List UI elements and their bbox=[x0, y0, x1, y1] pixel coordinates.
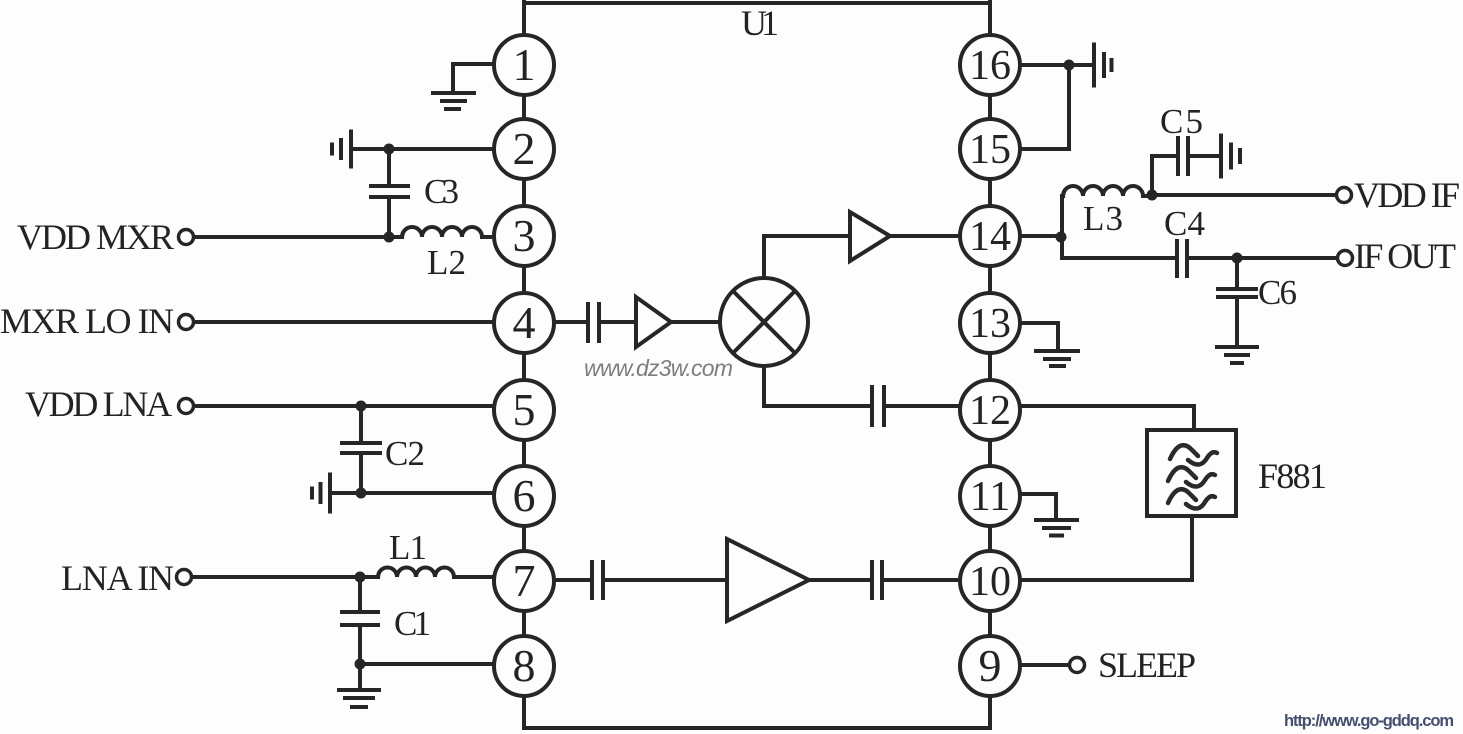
wire: pin 16 to ground bbox=[1020, 63, 1092, 67]
capacitor C1 bbox=[342, 612, 378, 625]
junction node at C1 bottom bbox=[355, 659, 366, 670]
junction node at LNA IN / C1 bbox=[355, 572, 366, 583]
terminal MXR LO IN bbox=[179, 315, 194, 330]
inductor L2 bbox=[402, 227, 496, 237]
junction node at L3 / C5 bbox=[1147, 190, 1158, 201]
wire: VDD LNA terminal to pin 5 bbox=[193, 404, 496, 408]
wire: C5 to ground bbox=[1190, 154, 1219, 158]
junction node at C4 / C6 bbox=[1232, 253, 1243, 264]
wire: mixer bottom down and right bbox=[764, 364, 870, 406]
svg-text:VDD LNA: VDD LNA bbox=[25, 384, 172, 424]
IC U1 pin 14 bbox=[960, 206, 1020, 266]
op-amp buffer A1 (LO path) bbox=[636, 297, 671, 347]
ground at pin 11 bbox=[1036, 520, 1077, 536]
ground at C1 bbox=[339, 690, 379, 707]
svg-text:8: 8 bbox=[513, 640, 536, 691]
capacitor C6 bbox=[1218, 289, 1256, 297]
wire: pin 1 to ground bbox=[453, 64, 496, 91]
wire: pin 13 to ground bbox=[1020, 323, 1058, 349]
svg-text:6: 6 bbox=[513, 470, 536, 521]
mixer M1 circle bbox=[720, 278, 808, 366]
svg-text:9: 9 bbox=[979, 640, 1002, 691]
capacitor C2 bbox=[342, 443, 380, 453]
svg-text:15: 15 bbox=[969, 127, 1011, 173]
svg-text:C5: C5 bbox=[1160, 102, 1203, 141]
wire: bottom rail from pin 8 to pin 9 bbox=[524, 726, 990, 730]
junction node at C2 bottom bbox=[356, 488, 367, 499]
terminal SLEEP bbox=[1070, 658, 1085, 673]
capacitor C4 bbox=[1177, 241, 1187, 276]
filter F881 wave 1 bbox=[1170, 445, 1198, 459]
svg-text:13: 13 bbox=[969, 301, 1011, 347]
coupling capacitor at pin 12 bbox=[872, 387, 884, 425]
svg-text:10: 10 bbox=[969, 559, 1011, 605]
svg-text:16: 16 bbox=[969, 43, 1011, 89]
svg-text:LNA IN: LNA IN bbox=[61, 558, 174, 598]
wire: top rail from pin 1 to pin 16 bbox=[524, 1, 990, 5]
wire: ground to pin 6 bbox=[332, 491, 496, 495]
wire: cap to buffer amp bbox=[601, 320, 634, 324]
svg-text:http://www.go-gddq.com: http://www.go-gddq.com bbox=[1284, 712, 1454, 730]
IC U1 pin 10 bbox=[960, 551, 1020, 611]
wire: right pin column vertical rail bbox=[988, 1, 992, 728]
wire: MXR LO IN terminal to pin 4 bbox=[193, 320, 496, 324]
wire: C1 node to pin 8 bbox=[360, 662, 496, 666]
wire: left pin column vertical rail bbox=[522, 1, 526, 728]
wire: C4 to IF OUT terminal bbox=[1189, 256, 1337, 260]
capacitor C5 bbox=[1178, 138, 1188, 174]
coupling capacitor at pin 4 bbox=[588, 304, 599, 341]
capacitor C3 bbox=[371, 186, 408, 197]
terminal LNA IN bbox=[177, 570, 192, 585]
svg-text:4: 4 bbox=[513, 297, 536, 348]
wire: C5 branch bbox=[1152, 156, 1176, 195]
svg-text:VDD IF: VDD IF bbox=[1354, 175, 1460, 215]
svg-text:L3: L3 bbox=[1083, 199, 1123, 238]
wire: cap to LNA amp bbox=[605, 578, 725, 582]
junction node at VDD LNA / C2 bbox=[356, 401, 367, 412]
filter F881 wave 2 bbox=[1168, 467, 1196, 481]
IC U1 pin 5 bbox=[494, 380, 554, 440]
svg-text:5: 5 bbox=[513, 384, 536, 435]
svg-text:www.dz3w.com: www.dz3w.com bbox=[584, 355, 733, 381]
wire: node to VDD IF terminal bbox=[1152, 193, 1337, 197]
inductor L3 bbox=[1063, 186, 1152, 196]
IC U1 pin 2 bbox=[494, 119, 554, 179]
IC U1 pin 13 bbox=[960, 293, 1020, 353]
op-amp A3 (LNA) bbox=[727, 539, 809, 621]
wire: pin 4 to coupling cap bbox=[554, 320, 586, 324]
wire: buffer amp to mixer bbox=[672, 320, 722, 324]
svg-text:1: 1 bbox=[513, 39, 536, 90]
IC U1 pin 9 bbox=[960, 636, 1020, 696]
ground at pin 13 bbox=[1036, 351, 1078, 366]
wire: pin 14 to node bbox=[1020, 234, 1062, 238]
IC U1 pin 3 bbox=[494, 206, 554, 266]
ground at pin 16 bbox=[1094, 45, 1112, 86]
terminal VDD LNA bbox=[179, 399, 194, 414]
IC U1 pin 8 bbox=[494, 636, 554, 696]
wire: C3 branch vertical bbox=[387, 149, 391, 237]
IC U1 pin 6 bbox=[494, 466, 554, 526]
IC U1 pin 11 bbox=[960, 466, 1020, 526]
svg-text:12: 12 bbox=[969, 388, 1011, 434]
wire: LNA IN terminal to L1 bbox=[191, 575, 378, 579]
wire: pin 12 to filter F881 bbox=[1020, 406, 1194, 428]
wire: LNA amp to coupling cap bbox=[809, 578, 870, 582]
ground at pin 6 bbox=[312, 475, 330, 512]
wire: pin 7 to coupling cap bbox=[554, 578, 590, 582]
inductor L1 bbox=[378, 568, 496, 578]
junction node at pin 14 bbox=[1056, 232, 1067, 243]
svg-text:14: 14 bbox=[969, 214, 1011, 260]
wire: C2 branch vertical bbox=[359, 406, 363, 493]
svg-text:C2: C2 bbox=[385, 434, 425, 473]
wire: VDD MXR terminal to L2 bbox=[193, 235, 402, 239]
svg-text:7: 7 bbox=[513, 555, 536, 606]
svg-text:U1: U1 bbox=[741, 3, 779, 43]
op-amp A2 (IF path) bbox=[850, 212, 890, 261]
ground at pin 2 bbox=[332, 132, 351, 167]
wire: filter F881 to pin 10 bbox=[1020, 516, 1192, 580]
svg-text:IF OUT: IF OUT bbox=[1354, 236, 1456, 276]
coupling capacitor at pin 10 bbox=[872, 562, 882, 598]
svg-text:C1: C1 bbox=[394, 604, 431, 643]
wire: C1 branch vertical bbox=[358, 577, 362, 664]
IC U1 pin 1 bbox=[494, 35, 554, 95]
wire: cap to pin 12 bbox=[886, 404, 962, 408]
junction node at pin 16 bbox=[1064, 60, 1075, 71]
svg-text:MXR LO IN: MXR LO IN bbox=[0, 301, 174, 341]
svg-text:11: 11 bbox=[970, 474, 1010, 520]
ground at C5 bbox=[1221, 136, 1240, 177]
wire: pin 9 to SLEEP terminal bbox=[1020, 663, 1070, 667]
terminal VDD IF bbox=[1337, 188, 1352, 203]
filter F881 wave 3 bbox=[1168, 489, 1196, 503]
junction node at C3 top bbox=[384, 144, 395, 155]
ground at pin 1 bbox=[433, 93, 474, 109]
filter F881 box bbox=[1147, 430, 1236, 516]
wire: IF amp to pin 14 bbox=[890, 234, 962, 238]
svg-text:VDD MXR: VDD MXR bbox=[17, 217, 174, 257]
coupling capacitor at pin 7 bbox=[592, 562, 603, 598]
svg-text:3: 3 bbox=[513, 210, 536, 261]
svg-text:F881: F881 bbox=[1258, 456, 1327, 496]
svg-text:L1: L1 bbox=[389, 528, 427, 567]
svg-text:SLEEP: SLEEP bbox=[1098, 645, 1196, 685]
terminal VDD MXR bbox=[179, 230, 194, 245]
wire: C6 branch vertical bbox=[1235, 258, 1239, 347]
wire: C1 node to ground bbox=[358, 664, 362, 688]
svg-text:L2: L2 bbox=[427, 243, 466, 282]
svg-text:C6: C6 bbox=[1258, 273, 1297, 312]
terminal IF OUT bbox=[1338, 251, 1353, 266]
wire: L3 riser bbox=[1060, 196, 1064, 258]
mixer M1 X cross bbox=[733, 291, 795, 353]
IC U1 pin 4 bbox=[494, 293, 554, 353]
svg-text:C3: C3 bbox=[424, 172, 459, 211]
wire: pin 16 node down to pin 15 bbox=[1020, 65, 1069, 149]
IC U1 pin 16 bbox=[960, 35, 1020, 95]
ground at C6 bbox=[1217, 347, 1257, 363]
wire: node to C4 bbox=[1062, 256, 1175, 260]
IC U1 pin 15 bbox=[960, 119, 1020, 179]
junction node at C3 bottom / VDD MXR bbox=[384, 232, 395, 243]
wire: pin 11 to ground bbox=[1020, 494, 1056, 518]
wire: mixer top to IF amp bbox=[764, 236, 849, 280]
svg-text:2: 2 bbox=[513, 123, 536, 174]
IC U1 pin 12 bbox=[960, 380, 1020, 440]
wire: cap to pin 10 bbox=[884, 578, 962, 582]
IC U1 pin 7 bbox=[494, 551, 554, 611]
wire: pin 2 to ground node bbox=[353, 147, 496, 151]
svg-text:C4: C4 bbox=[1164, 204, 1205, 243]
